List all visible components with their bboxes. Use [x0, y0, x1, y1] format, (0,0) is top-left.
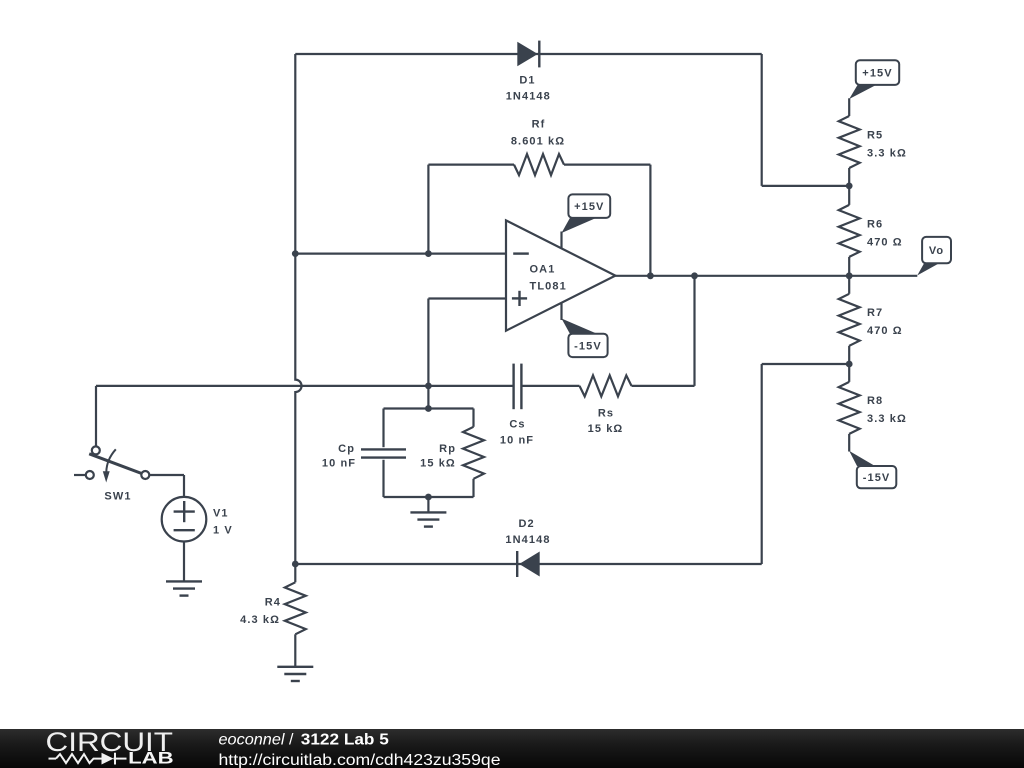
node: R7/R8 junction: [846, 361, 853, 368]
ground below V1: [166, 580, 202, 582]
svg-text:R6: R6: [867, 218, 883, 230]
node: bottom of Cp/Rp tank: [425, 494, 432, 501]
resistor R6 470 with labels: [839, 186, 903, 276]
svg-text:470 Ω: 470 Ω: [867, 236, 903, 248]
resistor R8 3.3k with labels: [839, 364, 907, 452]
ground below Cp/Rp tank: [410, 497, 446, 527]
resistor R7 470 with labels: [839, 276, 903, 364]
node: junction left rail / inverting wire: [292, 250, 299, 257]
resistor Rp 15k with labels: [420, 409, 484, 498]
svg-text:-15V: -15V: [574, 340, 602, 352]
svg-text:3.3 kΩ: 3.3 kΩ: [867, 413, 907, 425]
node: top of Cp/Rp tank: [425, 405, 432, 412]
svg-text:D1: D1: [519, 75, 535, 87]
node: output / Rf junction: [647, 272, 654, 279]
svg-text:LAB: LAB: [128, 750, 174, 768]
switch SW1: [74, 386, 149, 503]
svg-text:15 kΩ: 15 kΩ: [588, 423, 624, 435]
svg-text:15 kΩ: 15 kΩ: [420, 457, 456, 469]
wire: middle horizontal wire from switch: [96, 385, 514, 387]
svg-text:http://circuitlab.com/cdh423zu: http://circuitlab.com/cdh423zu359qe: [219, 752, 501, 768]
svg-text:/: /: [289, 732, 294, 749]
op-amp negative supply pin and -15V flag: [562, 303, 608, 357]
svg-text:+15V: +15V: [574, 201, 604, 213]
wire: op-amp output wire to Vo: [615, 275, 917, 277]
svg-text:-15V: -15V: [863, 472, 891, 484]
svg-text:1N4148: 1N4148: [505, 534, 550, 546]
svg-text:3122 Lab 5: 3122 Lab 5: [301, 732, 389, 749]
svg-text:Rs: Rs: [598, 407, 614, 419]
wire: V1 to ground: [183, 542, 185, 582]
svg-text:3.3 kΩ: 3.3 kΩ: [867, 147, 907, 159]
svg-text:R4: R4: [265, 597, 281, 609]
svg-text:eoconnel: eoconnel: [219, 732, 285, 749]
svg-text:Rp: Rp: [439, 443, 456, 455]
svg-text:4.3 kΩ: 4.3 kΩ: [240, 614, 280, 626]
node: R5/R6 junction: [846, 183, 853, 190]
diode D2 with labels: [505, 518, 550, 577]
node: junction left rail / bottom wire / R4: [292, 561, 299, 568]
svg-text:V1: V1: [213, 507, 229, 519]
svg-text:R5: R5: [867, 130, 883, 142]
wire: switch to V1: [149, 474, 184, 476]
resistor R5 3.3k with labels: [839, 98, 907, 186]
svg-text:8.601 kΩ: 8.601 kΩ: [511, 135, 565, 147]
svg-text:R8: R8: [867, 395, 883, 407]
wire: Rs branch vertical: [693, 276, 695, 386]
wire: non-inverting branch vertical: [427, 299, 429, 409]
svg-text:Cs: Cs: [509, 419, 525, 431]
svg-text:1 V: 1 V: [213, 524, 233, 536]
wire: top feedback wire (D1 branch): [295, 53, 761, 55]
capacitor Cs 10nF with labels: [500, 364, 534, 447]
op-amp positive supply pin and +15V flag: [562, 194, 611, 248]
wire: left vertical rail with hop over middle wire: [295, 54, 301, 564]
svg-text:Vo: Vo: [929, 245, 944, 257]
svg-text:10 nF: 10 nF: [500, 435, 534, 447]
resistor Rs 15k with labels: [580, 375, 632, 434]
svg-text:Rf: Rf: [532, 118, 546, 130]
svg-text:1N4148: 1N4148: [506, 90, 551, 102]
svg-text:+15V: +15V: [862, 68, 892, 80]
wire: Cp/Rp tank top edge: [384, 407, 474, 409]
wire: bottom wire (D2 branch): [295, 563, 761, 565]
svg-text:OA1: OA1: [530, 263, 556, 275]
svg-text:D2: D2: [518, 518, 534, 530]
resistor R4 4.3k with labels: [240, 564, 306, 667]
wire: non-inverting input wire: [428, 297, 506, 299]
wire: Rf right vertical down to output: [649, 165, 651, 276]
ground below R4: [277, 666, 313, 668]
node: junction middle wire / non-inverting branch: [425, 383, 432, 390]
op-amp OA1 TL081: [506, 220, 615, 330]
output node flag Vo: [917, 237, 951, 276]
svg-text:TL081: TL081: [530, 280, 567, 292]
wire: inverting input wire: [295, 253, 506, 255]
+15V supply flag of ladder: [849, 60, 899, 99]
svg-text:470 Ω: 470 Ω: [867, 325, 903, 337]
wire: Rs to Rs-branch corner: [632, 385, 695, 387]
-15V supply flag of ladder: [849, 451, 896, 488]
resistor Rf 8.601k with labels: [428, 118, 650, 175]
wire: Rf left vertical: [427, 165, 429, 255]
wire: Cp/Rp tank bottom edge: [384, 496, 474, 498]
wire: right vertical top (D1 to ladder): [761, 54, 763, 186]
capacitor Cp 10nF with labels: [322, 409, 406, 498]
diode D1 with labels: [506, 41, 551, 103]
svg-text:R7: R7: [867, 307, 883, 319]
CircuitLab logo: [46, 727, 174, 767]
node: junction Rf branch / inverting wire: [425, 250, 432, 257]
svg-text:SW1: SW1: [104, 491, 131, 503]
svg-text:Cp: Cp: [338, 443, 355, 455]
node: output / Rs junction: [691, 272, 698, 279]
wire: between Cs and Rs: [521, 385, 579, 387]
node: output / ladder junction: [846, 272, 853, 279]
voltage source V1 1V: [162, 497, 233, 542]
footer bar: [0, 729, 1024, 768]
wire: right vertical bottom (ladder to D2): [761, 364, 763, 564]
svg-text:10 nF: 10 nF: [322, 457, 356, 469]
